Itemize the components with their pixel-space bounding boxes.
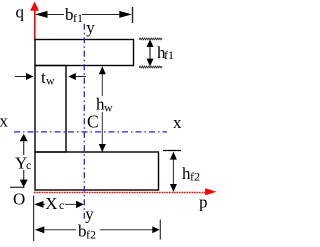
dimension t_w <box>15 76 27 78</box>
svg-text:w: w <box>104 100 113 114</box>
x centroid axis (blue dash-dot horizontal) <box>14 131 167 133</box>
svg-text:X: X <box>45 194 57 213</box>
y centroid axis (blue dash-dot vertical) <box>83 24 85 221</box>
svg-text:f1: f1 <box>164 48 174 62</box>
dimension Y_c <box>23 139 25 155</box>
dimension b_f1 <box>41 7 133 23</box>
svg-text:f2: f2 <box>190 170 200 184</box>
svg-text:x: x <box>0 112 9 131</box>
svg-text:O: O <box>13 189 25 208</box>
I-beam section: top flange rectangle <box>35 40 134 66</box>
q axis (red vertical) <box>34 9 36 41</box>
dimension h_f2 <box>163 150 181 152</box>
svg-text:c: c <box>26 158 31 172</box>
p axis (red horizontal) <box>34 192 206 194</box>
I-beam section: web rectangle <box>35 66 66 153</box>
svg-text:C: C <box>87 112 99 132</box>
dimension b_f2 <box>44 229 76 231</box>
svg-text:p: p <box>199 193 208 212</box>
q axis arrowhead <box>30 2 39 11</box>
svg-text:x: x <box>173 113 182 132</box>
I-beam section: bottom flange rectangle <box>35 152 159 190</box>
svg-text:y: y <box>86 18 95 37</box>
svg-text:q: q <box>16 3 25 22</box>
dimension h_w <box>101 70 103 96</box>
svg-text:y: y <box>85 205 94 224</box>
svg-text:w: w <box>46 73 55 87</box>
p axis arrowhead <box>205 188 216 195</box>
dimension X_c <box>33 196 35 242</box>
svg-text:c: c <box>59 198 64 212</box>
svg-text:f2: f2 <box>86 228 96 242</box>
dimension h_f1 <box>139 38 162 40</box>
svg-text:f1: f1 <box>73 11 83 25</box>
